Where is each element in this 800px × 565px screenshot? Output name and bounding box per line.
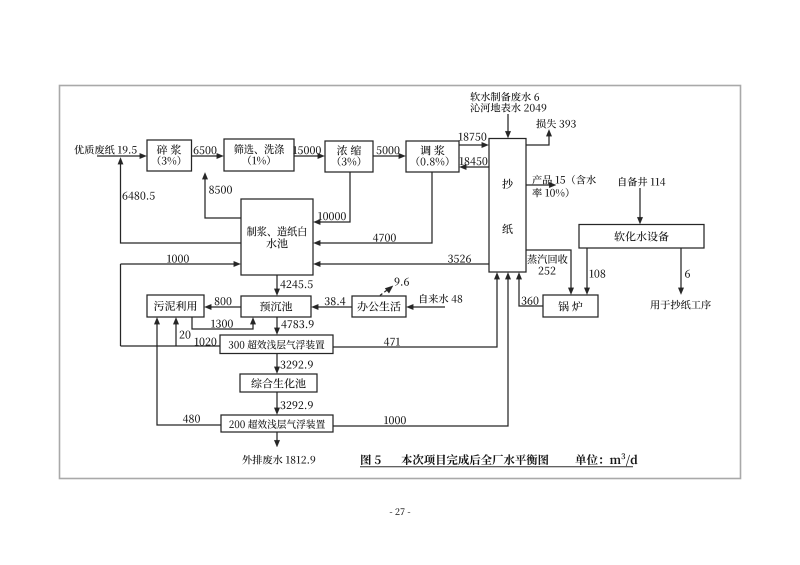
label 蒸汽回收 bbox=[527, 254, 537, 263]
wire 1020 300气浮→分汇点 bbox=[121, 345, 221, 347]
wire 6 软化水设备→抄纸工序 bbox=[680, 248, 682, 289]
label 4700 bbox=[373, 234, 378, 242]
label 4783.9 bbox=[281, 320, 286, 328]
wire 10000 浓缩→白水池 bbox=[319, 172, 350, 222]
caption 单位：m³/d bbox=[575, 454, 586, 465]
label 9.6 bbox=[395, 278, 400, 286]
label 471 bbox=[384, 338, 389, 346]
caption 本次项目完成后全厂水平衡图 bbox=[401, 454, 412, 465]
label 产品 15（含水 bbox=[532, 175, 541, 184]
wire 损失 393 out of 抄纸 bbox=[526, 135, 549, 145]
caption underline bbox=[360, 466, 633, 468]
label 18750 bbox=[459, 133, 463, 141]
wire 外排废水 bbox=[276, 432, 278, 441]
label 外排废水 1812.9 bbox=[242, 455, 251, 464]
wire 9.6 dashed out of 办公生活 bbox=[380, 289, 389, 296]
box 筛选、洗涤（1%） bbox=[224, 139, 294, 171]
wire 471 300气浮→抄纸 bbox=[333, 278, 497, 347]
label 480 bbox=[183, 415, 188, 423]
label 6480.5 bbox=[123, 192, 128, 200]
label 360 bbox=[522, 297, 527, 305]
page number - 27 - bbox=[390, 511, 392, 514]
wire 6500 碎浆→筛选 bbox=[192, 155, 219, 157]
wire 4245.5 白水池→预沉池 bbox=[276, 275, 278, 290]
label 1000 bbox=[167, 255, 171, 263]
label 沁河地表水 2049 bbox=[470, 103, 479, 112]
box 综合生化池 bbox=[240, 374, 317, 392]
label 15000 bbox=[293, 146, 297, 154]
wire 1000 气浮→白水池 bbox=[120, 264, 122, 346]
wire 3526 抄纸→白水池 bbox=[319, 263, 489, 265]
box 办公生活 bbox=[352, 296, 406, 317]
label 损失 393 bbox=[536, 119, 545, 128]
box 碎浆（3%） bbox=[147, 140, 192, 171]
label 108 bbox=[590, 270, 594, 278]
wire 软水/地表水→抄纸 bbox=[507, 114, 509, 132]
label 252 bbox=[539, 267, 544, 275]
page border frame bbox=[60, 86, 741, 479]
label 6500 bbox=[194, 146, 199, 154]
wire 4783.9 预沉池→300气浮 bbox=[276, 317, 278, 330]
wire 800 预沉池→污泥利用 bbox=[210, 306, 241, 308]
label 20 bbox=[180, 331, 185, 339]
label 用于抄纸工序 bbox=[650, 300, 659, 309]
box 300超效浅层气浮装置 bbox=[220, 335, 333, 354]
wire 3292.9 综合生化池→200气浮 bbox=[276, 392, 278, 409]
box 锅炉 bbox=[543, 295, 598, 317]
wire 18750 调浆→抄纸 bbox=[459, 144, 483, 146]
wire 蒸汽回收 抄纸→锅炉 bbox=[526, 250, 571, 289]
label 10000 bbox=[318, 212, 322, 220]
wire 6480.5 白水池→碎浆输入 bbox=[121, 163, 242, 243]
wire 1000 200气浮→抄纸 bbox=[333, 278, 508, 426]
label 3526 bbox=[448, 255, 453, 263]
box 调浆（0.8%） bbox=[406, 141, 459, 172]
wire input 优质废纸 bbox=[97, 155, 141, 157]
label 38.4 bbox=[325, 297, 330, 305]
wire 1300 污泥利用→预沉池 bbox=[192, 317, 253, 329]
wire 480 200气浮→污泥利用 bbox=[157, 323, 221, 425]
box 200超效浅层气浮装置 bbox=[221, 415, 333, 432]
box 污泥利用 bbox=[147, 295, 204, 317]
wire 20 →污泥利用 bbox=[175, 322, 177, 346]
box 预沉池 bbox=[241, 296, 311, 317]
wire 18450 抄纸→调浆 bbox=[465, 166, 489, 168]
label 1020 bbox=[195, 338, 199, 346]
wire 产品 out of 抄纸 bbox=[526, 184, 550, 186]
wire 3292.9 300气浮→综合生化池 bbox=[276, 354, 278, 369]
label 18450 bbox=[460, 157, 464, 165]
box 软化水设备 bbox=[579, 225, 704, 249]
wire 15000 筛选→浓缩 bbox=[294, 155, 319, 157]
box 制浆、造纸白水池 bbox=[241, 199, 313, 275]
label 800 bbox=[215, 297, 220, 305]
label 软水制备废水 6 bbox=[470, 92, 480, 101]
wire 自备井→软化水设备 bbox=[639, 188, 641, 218]
box 浓缩（3%） bbox=[325, 141, 373, 172]
label 1300 bbox=[211, 320, 215, 328]
label 3292.9 bbox=[280, 401, 285, 409]
label 6 bbox=[685, 270, 690, 278]
wire 38.4 办公生活→预沉池 bbox=[317, 306, 352, 308]
label 自备井 114 bbox=[619, 177, 626, 186]
wire 360 锅炉→抄纸 bbox=[519, 278, 543, 306]
wire 108 软化水设备→锅炉 bbox=[586, 248, 588, 289]
wire 8500 白水池→碎浆 bbox=[205, 178, 241, 218]
label 8500 bbox=[209, 186, 214, 194]
label 率 10%） bbox=[532, 188, 541, 197]
label 5000 bbox=[377, 146, 382, 154]
wire 5000 浓缩→调浆 bbox=[373, 155, 400, 157]
box 抄纸 bbox=[489, 139, 526, 273]
label 自来水 48 bbox=[420, 294, 427, 303]
caption 图 5 bbox=[361, 454, 371, 465]
label 优质废纸 19.5 bbox=[74, 145, 84, 154]
label 1000 bbox=[384, 416, 388, 424]
wire 自来水→办公生活 bbox=[412, 306, 445, 308]
label 3292.9 bbox=[280, 361, 285, 369]
wire 4700 调浆→白水池 bbox=[319, 172, 432, 243]
label 4245.5 bbox=[280, 280, 285, 288]
